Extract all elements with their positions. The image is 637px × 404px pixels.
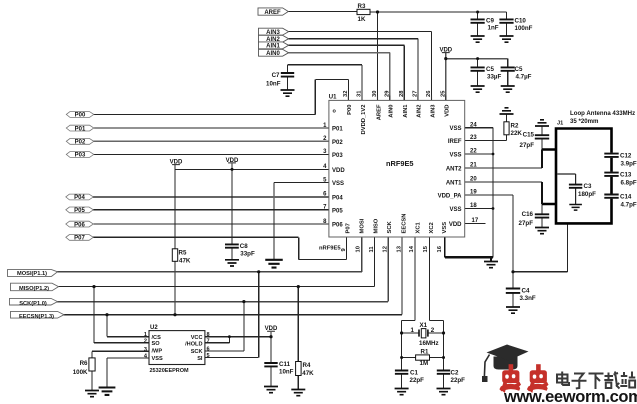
svg-text:C3: C3 [584, 183, 592, 190]
svg-text:MOSI: MOSI [360, 218, 366, 233]
svg-text:C5: C5 [486, 66, 494, 73]
svg-text:1nF: 1nF [488, 25, 499, 32]
svg-text:VSS: VSS [449, 126, 461, 132]
svg-text:R4: R4 [303, 362, 311, 369]
svg-text:21: 21 [470, 163, 477, 169]
svg-text:nRF9E5: nRF9E5 [386, 159, 414, 168]
svg-text:8: 8 [207, 332, 210, 338]
svg-text:P06: P06 [74, 222, 85, 228]
svg-text:P00: P00 [75, 113, 86, 119]
svg-text:AIN0: AIN0 [266, 51, 280, 57]
svg-text:C9: C9 [486, 18, 494, 25]
svg-text:18: 18 [470, 203, 477, 209]
svg-text:X1: X1 [420, 322, 428, 329]
svg-text:EECSN(P1.3): EECSN(P1.3) [19, 314, 54, 320]
svg-text:C8: C8 [240, 243, 248, 250]
svg-text:P00: P00 [347, 105, 353, 115]
svg-text:DVDD_1V2: DVDD_1V2 [361, 105, 367, 135]
svg-text:33µF: 33µF [487, 73, 501, 80]
svg-text:EECSN: EECSN [402, 214, 408, 234]
svg-text:MOSI(P1.1): MOSI(P1.1) [17, 271, 47, 277]
svg-text:31: 31 [357, 90, 363, 97]
svg-text:AIN1: AIN1 [266, 44, 280, 50]
svg-text:4.7µF: 4.7µF [516, 73, 532, 80]
svg-text:14: 14 [409, 245, 415, 252]
svg-text:VSS: VSS [332, 181, 344, 187]
svg-text:25: 25 [440, 90, 446, 97]
svg-text:ANT2: ANT2 [446, 167, 462, 173]
svg-text:IREF: IREF [448, 139, 462, 145]
svg-text:C1: C1 [410, 370, 418, 377]
svg-text:1K: 1K [358, 16, 366, 23]
svg-text:1M: 1M [420, 360, 429, 367]
svg-text:24: 24 [470, 122, 477, 128]
svg-text:/CS: /CS [152, 335, 162, 341]
svg-text:VSS: VSS [152, 356, 163, 362]
svg-text:6.8pF: 6.8pF [621, 180, 637, 187]
svg-text:19: 19 [470, 190, 477, 196]
svg-text:J1: J1 [557, 121, 563, 127]
svg-text:Loop Antenna 433MHz: Loop Antenna 433MHz [570, 110, 635, 117]
svg-text:C12: C12 [620, 153, 632, 160]
svg-text:C14: C14 [620, 194, 632, 201]
svg-text:6: 6 [207, 347, 210, 353]
svg-text:26: 26 [426, 90, 432, 97]
svg-text:AIN2: AIN2 [417, 105, 423, 118]
svg-text:27pF: 27pF [520, 142, 535, 149]
svg-text:C4: C4 [522, 288, 530, 295]
svg-text:22pF: 22pF [451, 377, 466, 384]
svg-text:C10: C10 [515, 18, 527, 25]
svg-text:100K: 100K [73, 369, 88, 376]
svg-text:180pF: 180pF [578, 191, 596, 198]
svg-text:VDD: VDD [445, 105, 451, 117]
svg-text:MISO(P1.2): MISO(P1.2) [19, 286, 49, 292]
svg-text:VDD_PA: VDD_PA [438, 194, 463, 200]
svg-text:1: 1 [411, 327, 415, 334]
svg-text:AREF: AREF [376, 104, 382, 120]
svg-text:SCK(P1.0): SCK(P1.0) [19, 301, 47, 307]
svg-text:10nF: 10nF [266, 81, 281, 88]
svg-text:28: 28 [399, 90, 405, 97]
svg-text:R2: R2 [511, 123, 519, 130]
svg-text:47K: 47K [302, 370, 314, 377]
svg-text:U2: U2 [150, 325, 158, 331]
svg-text:P02: P02 [332, 140, 343, 146]
svg-text:C5: C5 [515, 66, 523, 73]
svg-text:P05: P05 [332, 208, 343, 214]
svg-text:P01: P01 [75, 126, 86, 132]
svg-text:4.7pF: 4.7pF [621, 202, 637, 209]
svg-text:2: 2 [431, 327, 435, 334]
svg-text:SCK: SCK [191, 349, 203, 355]
svg-text:SCK: SCK [387, 220, 393, 233]
svg-text:P07: P07 [74, 236, 85, 242]
svg-text:www.eeworm.com: www.eeworm.com [503, 388, 637, 404]
svg-text:P07: P07 [345, 223, 351, 233]
svg-text:AIN3: AIN3 [266, 30, 280, 36]
svg-text:13: 13 [397, 245, 403, 252]
svg-text:10: 10 [355, 246, 361, 252]
svg-text:23: 23 [470, 135, 477, 141]
svg-text:P04: P04 [74, 195, 85, 201]
svg-text:P05: P05 [74, 208, 85, 214]
svg-text:R5: R5 [179, 250, 187, 257]
svg-text:47K: 47K [179, 258, 191, 265]
svg-text:C7: C7 [272, 72, 280, 79]
svg-text:/WP: /WP [152, 349, 163, 355]
svg-text:16: 16 [437, 245, 443, 252]
svg-text:VSS: VSS [449, 207, 461, 213]
svg-text:VSS: VSS [449, 153, 461, 159]
svg-text:C15: C15 [523, 132, 535, 139]
svg-text:25320EEPROM: 25320EEPROM [150, 368, 190, 374]
svg-text:27: 27 [412, 91, 418, 97]
svg-text:U1: U1 [329, 94, 337, 100]
svg-text:R3: R3 [358, 3, 366, 10]
svg-text:R1: R1 [421, 348, 429, 355]
svg-text:11: 11 [369, 246, 375, 253]
svg-text:AIN3: AIN3 [430, 104, 436, 118]
svg-text:P02: P02 [75, 140, 86, 146]
svg-text:P06: P06 [332, 223, 343, 229]
svg-text:VSS: VSS [442, 222, 448, 234]
svg-text:10nF: 10nF [279, 369, 294, 376]
svg-text:35 *20mm: 35 *20mm [570, 118, 599, 125]
svg-text:12: 12 [383, 246, 389, 252]
svg-text:nRF9E5: nRF9E5 [319, 246, 341, 252]
svg-text:P03: P03 [75, 153, 86, 159]
svg-text:P01: P01 [332, 127, 343, 133]
svg-text:33pF: 33pF [240, 251, 255, 258]
svg-text:20: 20 [470, 177, 477, 183]
svg-text:/HOLD: /HOLD [185, 342, 202, 348]
svg-text:R6: R6 [80, 360, 88, 367]
svg-text:C13: C13 [620, 172, 632, 179]
svg-text:22: 22 [470, 149, 477, 155]
svg-text:AIN0: AIN0 [389, 105, 395, 118]
svg-text:VDD: VDD [449, 222, 462, 228]
svg-text:MISO: MISO [373, 218, 379, 233]
svg-text:P03: P03 [332, 153, 343, 159]
svg-text:C16: C16 [522, 211, 534, 218]
svg-text:27pF: 27pF [519, 220, 534, 227]
svg-text:7: 7 [207, 338, 210, 344]
svg-text:30: 30 [372, 91, 378, 97]
svg-text:2: 2 [144, 338, 147, 344]
svg-text:XC1: XC1 [415, 221, 421, 233]
svg-text:P04: P04 [332, 195, 343, 201]
svg-text:100nF: 100nF [515, 25, 533, 32]
svg-text:AREF: AREF [264, 10, 281, 16]
svg-text:XC2: XC2 [429, 222, 435, 233]
svg-text:22pF: 22pF [410, 377, 425, 384]
svg-text:C11: C11 [279, 361, 291, 368]
svg-text:17: 17 [472, 218, 479, 224]
svg-text:VCC: VCC [191, 335, 203, 341]
svg-text:32: 32 [343, 91, 349, 97]
svg-text:AIN1: AIN1 [403, 104, 409, 118]
svg-text:15: 15 [423, 245, 429, 252]
svg-text:29: 29 [384, 90, 390, 97]
svg-text:22K: 22K [511, 130, 523, 137]
svg-text:SO: SO [152, 341, 161, 347]
svg-text:16MHz: 16MHz [419, 340, 439, 347]
svg-text:VDD: VDD [332, 168, 345, 174]
svg-text:3: 3 [144, 347, 147, 353]
svg-text:AIN2: AIN2 [266, 37, 280, 43]
svg-text:3.9pF: 3.9pF [621, 161, 637, 168]
svg-text:SI: SI [197, 356, 203, 362]
svg-text:1: 1 [144, 332, 147, 338]
svg-text:3.3nF: 3.3nF [520, 295, 536, 302]
svg-text:5: 5 [207, 353, 210, 359]
svg-text:ANT1: ANT1 [446, 181, 462, 187]
svg-text:C2: C2 [451, 370, 459, 377]
